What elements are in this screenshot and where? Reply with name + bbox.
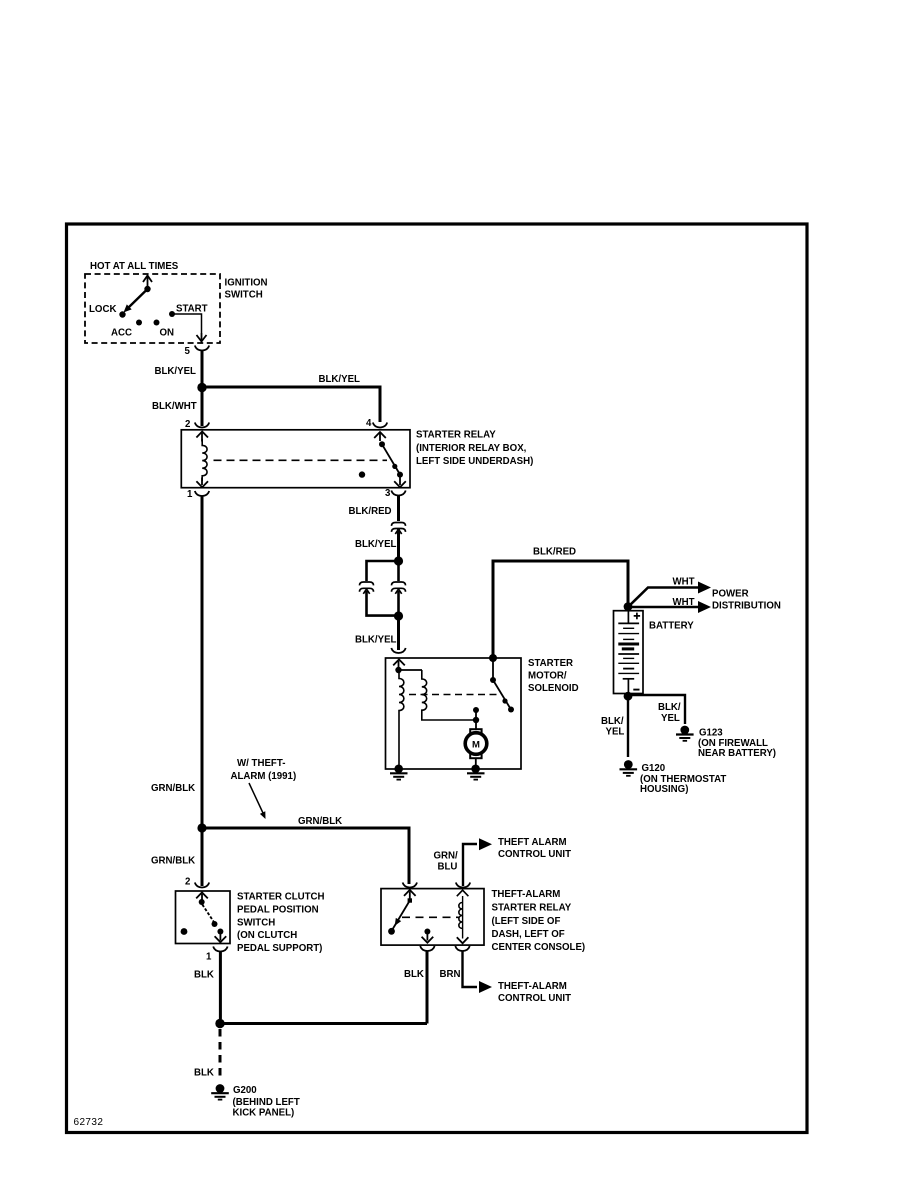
svg-text:62732: 62732: [74, 1117, 104, 1128]
node junction bottom of parallel connectors: [394, 611, 403, 620]
svg-text:BLK/RED: BLK/RED: [349, 506, 392, 517]
svg-text:(ON CLUTCH: (ON CLUTCH: [237, 930, 297, 941]
svg-text:CENTER CONSOLE): CENTER CONSOLE): [492, 942, 586, 953]
pin 3 connector: [391, 491, 405, 496]
svg-text:HOUSING): HOUSING): [640, 784, 688, 795]
battery B1: [614, 611, 644, 696]
wire BLK/RED solenoid to battery: [493, 561, 628, 658]
svg-text:GRN/: GRN/: [434, 851, 459, 862]
relay switch arm: [392, 901, 410, 932]
ON contact dot: [154, 320, 160, 326]
left branch connector: [360, 582, 374, 594]
ground (solenoid coil): [390, 765, 408, 780]
svg-text:BLK: BLK: [404, 969, 424, 980]
dashed wire BLK to G200: [219, 1029, 222, 1081]
node junction top of parallel connectors: [394, 556, 403, 565]
svg-text:WHT: WHT: [673, 577, 695, 588]
svg-text:GRN/BLK: GRN/BLK: [298, 816, 342, 827]
relay switch pivot dot: [408, 898, 412, 902]
wire BRN to theft-alarm control unit: [463, 951, 478, 987]
svg-text:STARTER RELAY: STARTER RELAY: [492, 903, 572, 914]
theft relay coil: [462, 896, 464, 939]
starter motor pin connector: [391, 648, 405, 653]
svg-text:CONTROL UNIT: CONTROL UNIT: [498, 993, 571, 1004]
theft relay coil exit arrow: [457, 937, 469, 943]
solenoid coil 2: [422, 670, 476, 720]
svg-text:5: 5: [185, 346, 191, 357]
svg-text:LEFT SIDE UNDERDASH): LEFT SIDE UNDERDASH): [416, 456, 533, 467]
svg-text:W/ THEFT-: W/ THEFT-: [237, 758, 285, 769]
right branch connector: [392, 582, 406, 594]
starter motor box: [386, 658, 522, 769]
svg-text:START: START: [176, 304, 208, 315]
wire BLK/WHT down to relay pin 2: [201, 387, 204, 426]
svg-text:STARTER CLUTCH: STARTER CLUTCH: [237, 892, 325, 903]
wire GRN/BLK branch to theft-alarm relay: [202, 828, 409, 884]
svg-text:4: 4: [366, 418, 372, 429]
ignition switch dashed box: [85, 274, 220, 343]
svg-text:BLK/YEL: BLK/YEL: [155, 366, 197, 377]
relay contact dot: [359, 471, 365, 477]
relay bottom connector left: [420, 946, 434, 951]
relay dashed link: [214, 459, 388, 461]
wire BLK/YEL to starter motor: [397, 616, 400, 650]
LOCK contact dot: [119, 311, 125, 317]
pin 4 connector: [373, 423, 387, 428]
svg-text:G123: G123: [699, 728, 723, 739]
pin 1 connector: [213, 947, 227, 952]
svg-text:LOCK: LOCK: [89, 304, 116, 315]
ground G120: [620, 760, 638, 776]
svg-text:IGNITION: IGNITION: [225, 278, 268, 289]
wire to motor: [475, 720, 477, 729]
solenoid coil 1: [399, 670, 404, 769]
wire WHT to power distribution 1: [628, 588, 698, 608]
svg-text:2: 2: [185, 877, 190, 888]
relay switch entry arrow: [374, 432, 386, 441]
svg-text:BLK/WHT: BLK/WHT: [152, 401, 197, 412]
relay switch entry arrow: [404, 890, 416, 900]
svg-text:POWER: POWER: [712, 589, 749, 600]
ignition feed arrow (up): [143, 276, 152, 290]
svg-text:YEL: YEL: [661, 713, 680, 724]
svg-text:1: 1: [206, 952, 212, 963]
ground (motor): [467, 765, 485, 780]
svg-text:BLK/YEL: BLK/YEL: [355, 539, 397, 550]
relay pin connector left: [403, 883, 417, 888]
relay coil exit arrow: [196, 478, 208, 488]
svg-text:ON: ON: [160, 328, 175, 339]
motor M: [470, 729, 481, 733]
pedal switch box: [176, 891, 231, 944]
wire BLK/YEL branch to relay pin 4: [202, 387, 380, 422]
solenoid switch arm: [493, 680, 511, 710]
ignition switch pivot dot: [144, 286, 150, 292]
svg-text:HOT AT ALL TIMES: HOT AT ALL TIMES: [90, 261, 179, 272]
svg-text:ALARM (1991): ALARM (1991): [231, 771, 297, 782]
starter relay box: [181, 430, 410, 488]
pedal switch dashed arm: [202, 905, 214, 923]
svg-text:M: M: [472, 739, 480, 750]
svg-text:SWITCH: SWITCH: [225, 290, 263, 301]
svg-text:THEFT-ALARM: THEFT-ALARM: [492, 889, 561, 900]
svg-text:G120: G120: [642, 763, 666, 774]
wire to coil 2: [399, 669, 423, 671]
svg-text:(BEHIND LEFT: (BEHIND LEFT: [233, 1097, 300, 1108]
wire BLK/YEL to G123: [628, 695, 685, 724]
svg-text:SOLENOID: SOLENOID: [528, 683, 579, 694]
node junction battery negative: [624, 692, 633, 701]
ACC contact dot: [136, 320, 142, 326]
svg-text:THEFT-ALARM: THEFT-ALARM: [498, 981, 567, 992]
svg-text:MOTOR/: MOTOR/: [528, 671, 567, 682]
node junction BLK: [215, 1019, 224, 1028]
svg-text:2: 2: [185, 419, 190, 430]
svg-text:(INTERIOR RELAY BOX,: (INTERIOR RELAY BOX,: [416, 443, 527, 454]
svg-text:THEFT ALARM: THEFT ALARM: [498, 837, 567, 848]
svg-text:CONTROL UNIT: CONTROL UNIT: [498, 849, 571, 860]
svg-text:PEDAL POSITION: PEDAL POSITION: [237, 905, 319, 916]
pin 2 connector: [195, 423, 209, 428]
svg-text:GRN/BLK: GRN/BLK: [151, 856, 195, 867]
svg-text:ACC: ACC: [111, 328, 132, 339]
pin 2 connector: [195, 883, 209, 888]
pin 1 connector: [195, 491, 209, 496]
node junction GRN/BLK: [197, 823, 206, 832]
svg-text:G200: G200: [233, 1085, 257, 1096]
inline connector: [392, 523, 406, 535]
node junction coils: [395, 667, 401, 673]
relay bottom connector right: [455, 946, 469, 951]
wire BLK/YEL to G120: [627, 696, 629, 757]
wire BLK to theft-alarm relay: [220, 1022, 427, 1025]
svg-text:BLK: BLK: [194, 970, 214, 981]
svg-text:STARTER RELAY: STARTER RELAY: [416, 430, 496, 441]
wire motor to ground: [475, 758, 477, 769]
wire GRN/BLU to theft-alarm control unit: [463, 844, 477, 886]
theft-alarm pointer arrow: [249, 783, 263, 813]
svg-text:BLK/YEL: BLK/YEL: [319, 374, 361, 385]
svg-text:KICK PANEL): KICK PANEL): [233, 1108, 295, 1119]
svg-text:SWITCH: SWITCH: [237, 918, 275, 929]
svg-text:DISTRIBUTION: DISTRIBUTION: [712, 601, 781, 612]
svg-text:(LEFT SIDE OF: (LEFT SIDE OF: [492, 916, 561, 927]
theft-alarm relay box: [381, 889, 484, 946]
relay coil: [202, 439, 207, 481]
svg-text:BLK/: BLK/: [658, 702, 681, 713]
relay switch contact dot and exit arrow: [424, 929, 430, 935]
svg-text:BATTERY: BATTERY: [649, 621, 694, 632]
ground G123: [676, 726, 694, 741]
svg-text:BLU: BLU: [438, 862, 458, 873]
svg-text:BLK/: BLK/: [601, 716, 624, 727]
svg-text:1: 1: [187, 489, 193, 500]
solenoid dashed link: [409, 694, 498, 696]
node junction battery positive: [624, 602, 633, 611]
wire BLK down: [219, 952, 222, 1020]
relay pin connector right: [456, 883, 470, 888]
pedal switch exit arrow: [215, 932, 227, 943]
wire WHT to power distribution 2: [628, 606, 698, 609]
node junction motor: [473, 717, 479, 723]
border frame: [67, 224, 808, 1133]
parallel connector branch wires: [367, 561, 399, 616]
svg-text:STARTER: STARTER: [528, 658, 573, 669]
solenoid contact dot: [473, 707, 479, 713]
solenoid switch contact dot: [490, 677, 496, 683]
svg-text:BLK/RED: BLK/RED: [533, 547, 576, 558]
svg-text:NEAR BATTERY): NEAR BATTERY): [698, 748, 776, 759]
stub contact to motor node: [475, 710, 477, 720]
ground G200: [211, 1084, 229, 1100]
solenoid entry arrow: [393, 659, 405, 670]
solenoid switch stub: [492, 658, 494, 680]
wire BLK relay to junction: [426, 951, 429, 1024]
pin 5 connector: [195, 346, 209, 351]
svg-text:BLK: BLK: [194, 1068, 214, 1079]
wire BLK/YEL: [397, 529, 400, 561]
relay switch exit arrow: [394, 475, 406, 487]
START contact dot: [169, 311, 175, 317]
svg-text:PEDAL SUPPORT): PEDAL SUPPORT): [237, 943, 322, 954]
svg-text:WHT: WHT: [673, 597, 695, 608]
wire START to pin 5: [172, 314, 202, 333]
relay switch arm: [379, 441, 385, 447]
relay dashed link: [402, 916, 459, 918]
relay coil entry arrow: [196, 432, 208, 442]
svg-text:BRN: BRN: [440, 969, 461, 980]
node junction solenoid switch: [489, 654, 497, 662]
wire left main vertical: [201, 496, 204, 886]
pedal switch open contact dot: [181, 928, 188, 935]
wire BLK/RED below pin 3: [397, 496, 400, 522]
ignition switch arm (to LOCK): [129, 289, 148, 308]
svg-text:3: 3: [385, 488, 391, 499]
node junction: [197, 383, 206, 392]
pedal switch entry arrow: [196, 892, 208, 902]
svg-text:GRN/BLK: GRN/BLK: [151, 783, 195, 794]
svg-text:BLK/YEL: BLK/YEL: [355, 635, 397, 646]
pedal switch pivot dot: [199, 899, 205, 905]
wire BLK/YEL pin5 down: [201, 351, 204, 388]
svg-text:YEL: YEL: [606, 727, 625, 738]
svg-text:DASH, LEFT OF: DASH, LEFT OF: [492, 929, 565, 940]
